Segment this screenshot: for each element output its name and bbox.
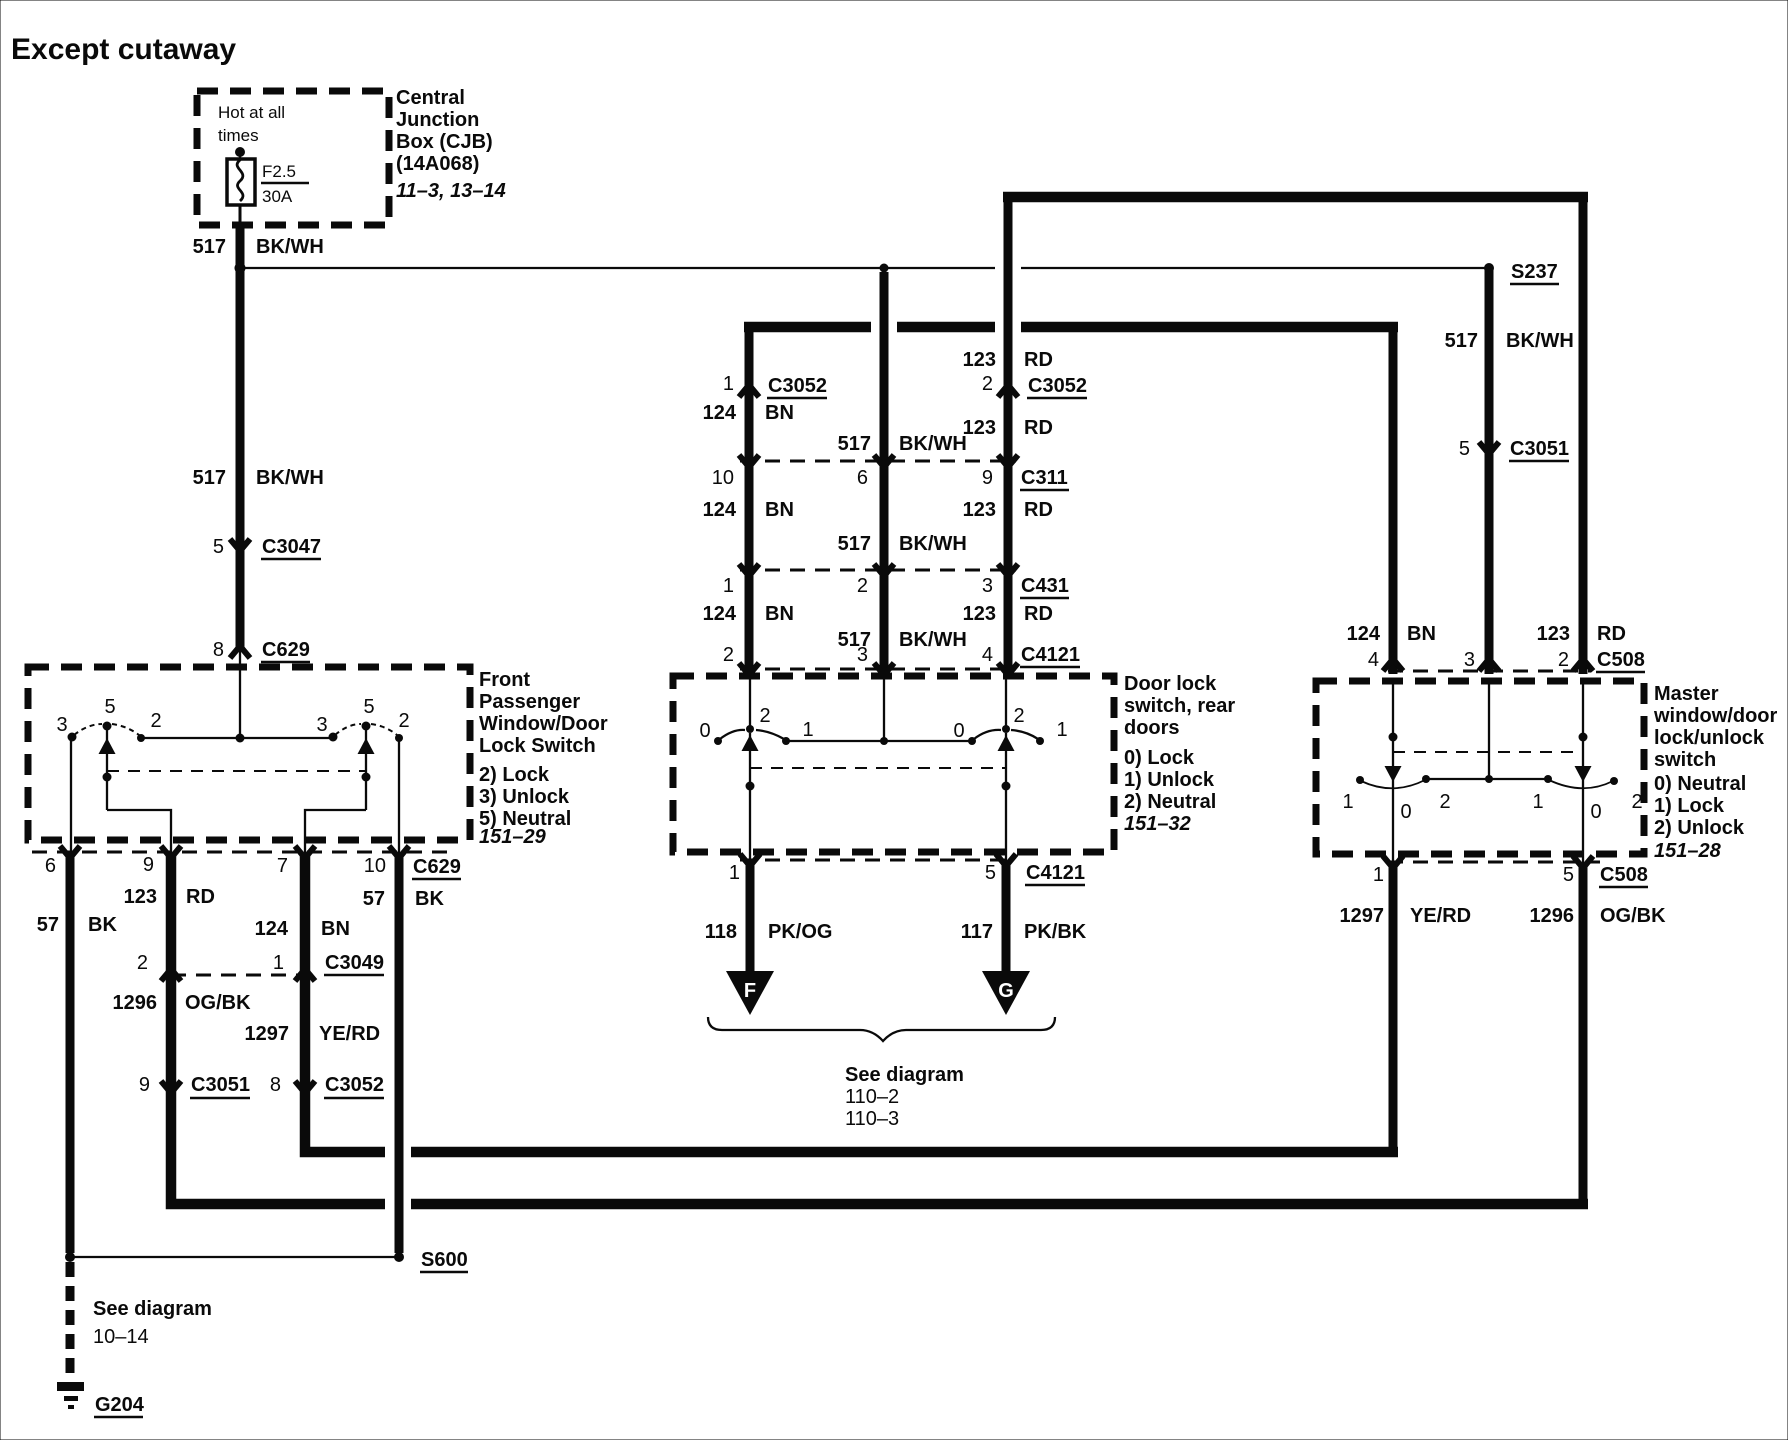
svg-text:3: 3 bbox=[857, 644, 868, 666]
connector C4121 chevrons bbox=[739, 663, 1018, 675]
label See diagram 10-14 bbox=[93, 1298, 212, 1348]
svg-text:Door lock: Door lock bbox=[1124, 673, 1217, 695]
svg-text:10: 10 bbox=[712, 467, 734, 489]
door lock switch right half bbox=[953, 676, 1067, 862]
svg-text:2) Unlock: 2) Unlock bbox=[1654, 817, 1745, 839]
svg-text:2: 2 bbox=[1631, 791, 1642, 813]
label C508 pins 1 5 bbox=[1373, 864, 1648, 887]
label 123 RD bbox=[963, 603, 1053, 625]
svg-text:BK/WH: BK/WH bbox=[899, 629, 967, 651]
connector C3052 pin 2 chevron bbox=[982, 373, 1087, 398]
svg-text:times: times bbox=[218, 126, 259, 145]
svg-text:517: 517 bbox=[838, 533, 871, 555]
svg-text:RD: RD bbox=[1024, 349, 1053, 371]
svg-text:C4121: C4121 bbox=[1021, 644, 1080, 666]
svg-text:123: 123 bbox=[1537, 623, 1570, 645]
svg-text:2: 2 bbox=[982, 373, 993, 395]
svg-text:C508: C508 bbox=[1600, 864, 1648, 886]
wire 124 BN right column bbox=[1389, 322, 1398, 674]
label 124 BN right bbox=[1347, 623, 1436, 645]
svg-text:5: 5 bbox=[363, 696, 374, 718]
svg-text:BK: BK bbox=[88, 914, 117, 936]
wire thin 517 jumper to S237 (right segment) bbox=[1021, 267, 1486, 269]
label C508 pins 4 3 2 bbox=[1368, 649, 1645, 672]
wire 517 BK/WH middle column bbox=[880, 272, 889, 674]
svg-text:Hot at all: Hot at all bbox=[218, 103, 285, 122]
label 123 RD right bbox=[1537, 623, 1626, 645]
svg-text:BK/WH: BK/WH bbox=[1506, 330, 1574, 352]
svg-text:124: 124 bbox=[703, 402, 737, 424]
svg-text:C508: C508 bbox=[1597, 649, 1645, 671]
svg-text:switch: switch bbox=[1654, 749, 1716, 771]
wire master switch common bar bbox=[1426, 778, 1548, 780]
label 517 BK/WH bbox=[838, 629, 967, 651]
svg-text:RD: RD bbox=[186, 886, 215, 908]
svg-text:2: 2 bbox=[150, 710, 161, 732]
wire 517 BK/WH from fuse to C629 bbox=[239, 205, 242, 738]
svg-text:C311: C311 bbox=[1021, 467, 1068, 489]
wire 57 BK pin10 down to S600 bbox=[395, 855, 404, 1253]
svg-text:2: 2 bbox=[137, 952, 148, 974]
svg-text:1: 1 bbox=[273, 952, 284, 974]
wire 1297 YE/RD down to bus1 bbox=[1389, 864, 1398, 1157]
svg-text:2: 2 bbox=[1558, 649, 1569, 671]
wire 117 PK/BK bbox=[1002, 862, 1011, 975]
svg-text:7: 7 bbox=[277, 855, 288, 877]
wire 123 RD right column bbox=[1579, 192, 1588, 674]
title Except cutaway bbox=[11, 33, 236, 66]
label C4121 pins 1 5 bbox=[729, 862, 1085, 885]
svg-text:PK/BK: PK/BK bbox=[1024, 921, 1087, 943]
svg-text:0: 0 bbox=[953, 720, 964, 742]
connector C508 dashed line bbox=[1388, 670, 1590, 673]
svg-text:30A: 30A bbox=[262, 187, 293, 206]
svg-text:S237: S237 bbox=[1511, 261, 1558, 283]
connector C629 pin 9 chevron bbox=[161, 846, 181, 858]
svg-text:C629: C629 bbox=[413, 856, 461, 878]
node 517 tap dot bbox=[880, 264, 889, 273]
svg-text:1: 1 bbox=[802, 719, 813, 741]
svg-text:0: 0 bbox=[699, 720, 710, 742]
svg-text:2) Neutral: 2) Neutral bbox=[1124, 791, 1216, 813]
label 517 BK/WH bbox=[1445, 330, 1574, 352]
svg-text:110–2: 110–2 bbox=[845, 1086, 899, 1108]
svg-text:C3047: C3047 bbox=[262, 536, 321, 558]
connector C508 pin 1 chevron bbox=[1383, 856, 1403, 868]
inner mechanical dashed link bbox=[750, 767, 1006, 769]
svg-text:117: 117 bbox=[961, 921, 993, 943]
svg-text:Box (CJB): Box (CJB) bbox=[396, 131, 493, 153]
svg-text:BN: BN bbox=[765, 499, 794, 521]
svg-text:BN: BN bbox=[765, 603, 794, 625]
svg-text:10: 10 bbox=[364, 855, 386, 877]
wire center 517 into switch bbox=[880, 676, 888, 745]
svg-text:1: 1 bbox=[1342, 791, 1353, 813]
connector C3049 pin 1 chevron bbox=[295, 969, 315, 981]
Door lock switch rear doors dashed box bbox=[673, 676, 1114, 852]
svg-text:Passenger: Passenger bbox=[479, 691, 580, 713]
svg-text:5: 5 bbox=[985, 862, 996, 884]
wire 123 RD middle column bbox=[1004, 192, 1013, 674]
node junction dot on 517 feed bbox=[235, 263, 246, 274]
arrow F to diagram 110-2 bbox=[726, 971, 774, 1015]
label 517 BK/WH bbox=[838, 433, 967, 455]
wire center pin 3 into switch bbox=[1485, 681, 1493, 783]
svg-text:2: 2 bbox=[759, 705, 770, 727]
svg-text:Master: Master bbox=[1654, 683, 1719, 705]
svg-text:8: 8 bbox=[213, 639, 224, 661]
label 57 BK left bbox=[37, 914, 118, 936]
wire dashed to ground bbox=[66, 1262, 75, 1381]
svg-text:4: 4 bbox=[1368, 649, 1379, 671]
svg-text:C3052: C3052 bbox=[325, 1074, 384, 1096]
wire 517 BK/WH right column bbox=[1485, 268, 1494, 674]
switch left half (contacts 3,5,2) bbox=[56, 696, 171, 858]
svg-text:C3049: C3049 bbox=[325, 952, 384, 974]
svg-text:F2.5: F2.5 bbox=[262, 162, 296, 181]
svg-text:2: 2 bbox=[857, 575, 868, 597]
svg-text:BK: BK bbox=[415, 888, 444, 910]
label 517 BK/WH bbox=[193, 467, 324, 489]
Front Passenger Window/Door Lock Switch dashed box bbox=[28, 667, 470, 840]
svg-text:1297: 1297 bbox=[245, 1023, 290, 1045]
label C629 pins 6 9 7 10 bbox=[45, 854, 461, 879]
svg-text:124: 124 bbox=[255, 918, 289, 940]
svg-text:9: 9 bbox=[143, 854, 154, 876]
switch right half (contacts 3,5,2) bbox=[305, 696, 410, 858]
wire 1296 OG/BK down to bus2 bbox=[1579, 864, 1588, 1209]
bus2 lower horizontal right segment bbox=[411, 1199, 1588, 1210]
inner mechanical dashed link bbox=[107, 770, 366, 772]
svg-text:1297: 1297 bbox=[1340, 905, 1385, 927]
svg-text:YE/RD: YE/RD bbox=[319, 1023, 380, 1045]
connector C3052 pin 8 chevron bbox=[270, 1074, 384, 1098]
svg-text:1: 1 bbox=[723, 373, 734, 395]
svg-text:2) Lock: 2) Lock bbox=[479, 764, 550, 786]
svg-text:PK/OG: PK/OG bbox=[768, 921, 832, 943]
svg-text:57: 57 bbox=[37, 914, 59, 936]
fuse F2.5 30A bbox=[227, 155, 309, 206]
label 123 RD bbox=[963, 417, 1053, 439]
svg-text:Window/Door: Window/Door bbox=[479, 713, 608, 735]
label 124 BN bbox=[703, 499, 794, 521]
svg-text:1) Unlock: 1) Unlock bbox=[1124, 769, 1215, 791]
door lock switch left half bbox=[699, 676, 813, 862]
connector C311 dashed line bbox=[740, 460, 1016, 463]
svg-text:Junction: Junction bbox=[396, 109, 479, 131]
Master window/door lock/unlock switch dashed box bbox=[1316, 681, 1644, 854]
label 124 BN bbox=[703, 603, 794, 625]
bus top horizontal thick bbox=[1003, 192, 1588, 203]
label 124 BN bbox=[255, 918, 350, 940]
svg-text:doors: doors bbox=[1124, 717, 1180, 739]
splice S600 bbox=[65, 1249, 468, 1272]
connector C4121 dashed line bbox=[740, 668, 1016, 671]
label 1296 OG/BK bbox=[113, 992, 252, 1014]
svg-text:0: 0 bbox=[1400, 801, 1411, 823]
label C311 pins 10 6 9 bbox=[712, 467, 1069, 490]
node fuse supply dot bbox=[235, 147, 245, 157]
svg-text:See diagram: See diagram bbox=[93, 1298, 212, 1320]
label See diagram 110-2 110-3 bbox=[845, 1064, 964, 1130]
svg-text:F: F bbox=[744, 980, 756, 1002]
svg-text:RD: RD bbox=[1024, 499, 1053, 521]
svg-text:517: 517 bbox=[1445, 330, 1478, 352]
connector C431 dashed line bbox=[740, 569, 1016, 572]
svg-text:110–3: 110–3 bbox=[845, 1108, 899, 1130]
node switch common junction bbox=[236, 734, 245, 743]
wire 57 BK pin6 down bbox=[66, 855, 75, 1253]
svg-text:RD: RD bbox=[1597, 623, 1626, 645]
svg-text:OG/BK: OG/BK bbox=[185, 992, 251, 1014]
connector C431 chevrons bbox=[739, 564, 1018, 576]
svg-text:11–3, 13–14: 11–3, 13–14 bbox=[396, 180, 506, 202]
svg-text:0) Neutral: 0) Neutral bbox=[1654, 773, 1746, 795]
svg-text:3: 3 bbox=[1464, 649, 1475, 671]
Central Junction Box (CJB) dashed box bbox=[197, 91, 389, 225]
svg-text:124: 124 bbox=[703, 499, 737, 521]
connector C629 pin 6 chevron bbox=[60, 846, 80, 858]
svg-text:1: 1 bbox=[729, 862, 740, 884]
svg-text:C3051: C3051 bbox=[1510, 438, 1569, 460]
svg-text:BK/WH: BK/WH bbox=[256, 467, 324, 489]
label 124 BN bbox=[703, 402, 794, 424]
svg-text:151–29: 151–29 bbox=[479, 826, 547, 848]
label 57 BK right bbox=[363, 888, 445, 910]
svg-text:3: 3 bbox=[982, 575, 993, 597]
svg-text:5: 5 bbox=[1459, 438, 1470, 460]
wire 124 BN middle column bbox=[745, 322, 754, 674]
svg-text:1: 1 bbox=[1056, 719, 1067, 741]
svg-text:8: 8 bbox=[270, 1074, 281, 1096]
svg-text:C4121: C4121 bbox=[1026, 862, 1085, 884]
connector C3052 pin 1 chevron bbox=[723, 373, 827, 398]
svg-text:G: G bbox=[998, 980, 1014, 1002]
svg-text:C3051: C3051 bbox=[191, 1074, 250, 1096]
bus mid horizontal thick (segments with crossover breaks) bbox=[744, 322, 1398, 333]
svg-text:1296: 1296 bbox=[113, 992, 158, 1014]
wire contact 2 to pin 10 bbox=[398, 738, 400, 858]
connector C3051 pin 9 chevron bbox=[139, 1074, 250, 1098]
label 123 RD bbox=[124, 886, 215, 908]
svg-text:See diagram: See diagram bbox=[845, 1064, 964, 1086]
svg-text:RD: RD bbox=[1024, 603, 1053, 625]
connector C508 lower dashed line bbox=[1388, 861, 1600, 864]
inner mechanical dashed link bbox=[1393, 751, 1583, 753]
svg-text:C431: C431 bbox=[1021, 575, 1069, 597]
svg-text:2: 2 bbox=[723, 644, 734, 666]
label 1296 OG/BK bbox=[1530, 905, 1667, 927]
connector C508 chevrons bbox=[1383, 659, 1593, 671]
svg-text:9: 9 bbox=[982, 467, 993, 489]
svg-text:5: 5 bbox=[1563, 864, 1574, 886]
svg-text:0) Lock: 0) Lock bbox=[1124, 747, 1195, 769]
label 118 PK/OG bbox=[705, 921, 833, 943]
svg-text:9: 9 bbox=[139, 1074, 150, 1096]
svg-text:Central: Central bbox=[396, 87, 465, 109]
bus1 lower horizontal right segment bbox=[411, 1147, 1398, 1158]
connector C3047 pin 5 bbox=[213, 536, 321, 559]
svg-text:3: 3 bbox=[56, 714, 67, 736]
svg-text:BN: BN bbox=[321, 918, 350, 940]
svg-text:5: 5 bbox=[104, 696, 115, 718]
connector C311 chevrons bbox=[739, 455, 1018, 467]
label C431 pins 1 2 3 bbox=[723, 575, 1069, 598]
svg-text:1: 1 bbox=[723, 575, 734, 597]
svg-text:3) Unlock: 3) Unlock bbox=[479, 786, 570, 808]
svg-text:124: 124 bbox=[1347, 623, 1381, 645]
svg-text:S600: S600 bbox=[421, 1249, 468, 1271]
connector C629 pin 10 chevron bbox=[389, 846, 409, 858]
svg-text:C3052: C3052 bbox=[1028, 375, 1087, 397]
wire pin7 down to bus1 corner bbox=[305, 855, 385, 1152]
svg-text:151–32: 151–32 bbox=[1124, 813, 1191, 835]
svg-text:BK/WH: BK/WH bbox=[899, 533, 967, 555]
svg-text:BK/WH: BK/WH bbox=[256, 236, 324, 258]
label 517 BK/WH bbox=[838, 533, 967, 555]
svg-text:124: 124 bbox=[703, 603, 737, 625]
svg-text:123: 123 bbox=[963, 349, 996, 371]
label Master window/door lock/unlock switch bbox=[1653, 683, 1778, 862]
svg-text:123: 123 bbox=[963, 603, 996, 625]
wire 118 PK/OG bbox=[746, 862, 755, 975]
label C3049 pins 2 1 bbox=[137, 952, 384, 975]
svg-text:6: 6 bbox=[45, 855, 56, 877]
svg-text:517: 517 bbox=[193, 467, 226, 489]
svg-text:C3052: C3052 bbox=[768, 375, 827, 397]
connector C629 pin 7 chevron bbox=[295, 846, 315, 858]
svg-text:BN: BN bbox=[765, 402, 794, 424]
svg-text:G204: G204 bbox=[95, 1394, 145, 1416]
svg-text:switch, rear: switch, rear bbox=[1124, 695, 1235, 717]
ground G204 bbox=[57, 1382, 145, 1417]
wire thin 517 jumper to S237 (left segment) bbox=[245, 267, 995, 269]
brace under F and G bbox=[708, 1017, 1055, 1041]
svg-text:1: 1 bbox=[1373, 864, 1384, 886]
svg-text:(14A068): (14A068) bbox=[396, 153, 479, 175]
master switch left half bbox=[1342, 681, 1450, 864]
connector C3049 pin 2 chevron bbox=[161, 969, 181, 981]
label 1297 YE/RD bbox=[245, 1023, 381, 1045]
arrow G to diagram 110-3 bbox=[982, 971, 1030, 1015]
svg-text:lock/unlock: lock/unlock bbox=[1654, 727, 1765, 749]
label 1297 YE/RD bbox=[1340, 905, 1472, 927]
svg-text:1296: 1296 bbox=[1530, 905, 1575, 927]
svg-text:window/door: window/door bbox=[1653, 705, 1778, 727]
svg-text:OG/BK: OG/BK bbox=[1600, 905, 1666, 927]
svg-text:118: 118 bbox=[705, 921, 737, 943]
connector C3051 pin 5 bbox=[1459, 438, 1569, 461]
wire contact 3 to pin 6 bbox=[70, 737, 72, 858]
svg-text:123: 123 bbox=[124, 886, 157, 908]
label 123 RD upper bbox=[963, 349, 1053, 371]
svg-text:4: 4 bbox=[982, 644, 993, 666]
node S237 splice bbox=[1484, 261, 1559, 284]
svg-text:123: 123 bbox=[963, 417, 996, 439]
label C4121 pins 2 3 4 bbox=[723, 644, 1080, 667]
svg-text:1) Lock: 1) Lock bbox=[1654, 795, 1725, 817]
connector C508 pin 5 chevron bbox=[1573, 856, 1593, 868]
connector C629 pin 8 bbox=[213, 639, 310, 662]
wire switch common bar bbox=[141, 737, 333, 739]
svg-text:2: 2 bbox=[1439, 791, 1450, 813]
svg-text:151–28: 151–28 bbox=[1654, 840, 1722, 862]
svg-text:C629: C629 bbox=[262, 639, 310, 661]
svg-text:BK/WH: BK/WH bbox=[899, 433, 967, 455]
label 117 PK/BK bbox=[961, 921, 1087, 943]
label 517 BK/WH bbox=[193, 236, 324, 258]
label Central Junction Box (CJB) (14A068) 11-3, 13-14 bbox=[396, 87, 506, 202]
label Front Passenger Window/Door Lock Switch bbox=[479, 669, 608, 848]
svg-text:Front: Front bbox=[479, 669, 530, 691]
svg-text:RD: RD bbox=[1024, 417, 1053, 439]
label 123 RD bbox=[963, 499, 1053, 521]
svg-text:1: 1 bbox=[1532, 791, 1543, 813]
wire pin9 down to bus2 corner bbox=[171, 855, 385, 1204]
svg-text:57: 57 bbox=[363, 888, 385, 910]
svg-text:Lock Switch: Lock Switch bbox=[479, 735, 596, 757]
connector C629 lower dashed line bbox=[32, 851, 448, 854]
svg-text:517: 517 bbox=[193, 236, 226, 258]
svg-text:YE/RD: YE/RD bbox=[1410, 905, 1471, 927]
connector C4121 pin 5 chevron bbox=[996, 854, 1016, 866]
master switch right half bbox=[1532, 681, 1642, 864]
wire switch common bar bbox=[786, 740, 972, 742]
svg-text:6: 6 bbox=[857, 467, 868, 489]
svg-text:517: 517 bbox=[838, 433, 871, 455]
connector C3049 dashed line bbox=[171, 974, 305, 977]
connector C4121 lower dashed line bbox=[740, 859, 1014, 862]
svg-text:Except cutaway: Except cutaway bbox=[11, 33, 236, 66]
svg-text:5: 5 bbox=[213, 536, 224, 558]
svg-text:BN: BN bbox=[1407, 623, 1436, 645]
svg-text:2: 2 bbox=[398, 710, 409, 732]
svg-text:2: 2 bbox=[1013, 705, 1024, 727]
svg-text:10–14: 10–14 bbox=[93, 1326, 149, 1348]
label Door lock switch, rear doors bbox=[1124, 673, 1235, 835]
svg-text:3: 3 bbox=[316, 714, 327, 736]
label Hot at all times bbox=[218, 103, 285, 145]
svg-text:123: 123 bbox=[963, 499, 996, 521]
svg-text:0: 0 bbox=[1590, 801, 1601, 823]
connector C4121 pin 1 chevron bbox=[740, 854, 760, 866]
